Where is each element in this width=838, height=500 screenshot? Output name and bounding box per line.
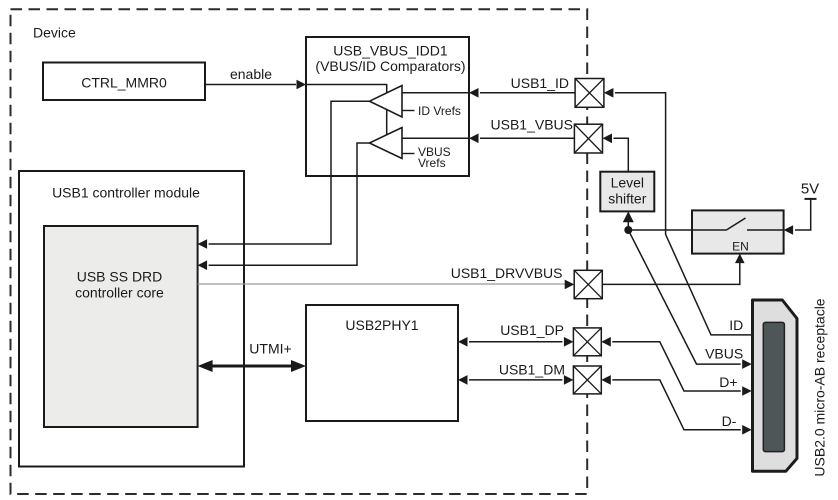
arrow VBUS comp output into core: [198, 260, 208, 270]
arrow D+ pin: [742, 386, 752, 396]
arrow ID comp output into core: [198, 239, 208, 249]
arrow VBUS pin: [742, 359, 752, 369]
block USB SS DRD controller core: [44, 226, 198, 427]
arrow into DM crossing right side: [601, 375, 611, 385]
svg-text:USB1_ID: USB1_ID: [511, 75, 569, 91]
wire ID Vrefs tick: [402, 110, 415, 112]
svg-text:shifter: shifter: [608, 191, 646, 207]
wire USB1_DRVVBUS (thin): [198, 283, 565, 285]
svg-text:ID: ID: [729, 317, 743, 333]
arrow DP into crossing: [564, 337, 574, 347]
wire VBUS comparator output: [209, 143, 370, 265]
wire USB1_VBUS to comparator box: [480, 137, 574, 139]
arrow into VBUS crossing right side: [603, 134, 613, 144]
svg-text:ID Vrefs: ID Vrefs: [418, 104, 461, 118]
arrow D- pin: [742, 425, 752, 435]
crossing USB1_ID: [575, 79, 604, 108]
crossing USB1_DRVVBUS: [574, 270, 602, 298]
arrow into ID crossing right side: [604, 88, 614, 98]
wire USB1_ID to comparator box: [480, 92, 575, 94]
wire USB1_DM between PHY and crossing: [469, 379, 562, 381]
crossing USB1_DP: [573, 328, 601, 356]
arrow UTMI right: [291, 360, 306, 372]
wire ID comparator input: [402, 92, 469, 94]
svg-text:USB1_DRVVBUS: USB1_DRVVBUS: [451, 265, 563, 281]
svg-text:USB2.0 micro-AB receptacle: USB2.0 micro-AB receptacle: [812, 298, 828, 476]
wire enable internal to comparators: [306, 85, 387, 135]
svg-text:D-: D-: [722, 413, 737, 429]
wire VBUS Vrefs tick: [402, 153, 415, 155]
arrow DM into PHY: [458, 375, 468, 385]
supply 5V: [795, 181, 819, 230]
wire VBUS comparator input: [402, 137, 469, 139]
arrow UTMI left: [198, 360, 213, 372]
block USB2PHY1: [306, 305, 458, 421]
block USB1 controller module: [19, 171, 244, 467]
svg-text:USB2PHY1: USB2PHY1: [345, 317, 418, 333]
wire VBUS external from crossing to level shifter: [614, 138, 629, 171]
svg-text:(VBUS/ID Comparators): (VBUS/ID Comparators): [315, 58, 465, 74]
arrow DM into crossing: [564, 375, 574, 385]
svg-text:CTRL_MMR0: CTRL_MMR0: [81, 75, 167, 91]
svg-text:VBUS: VBUS: [705, 346, 743, 362]
arrow USB1_VBUS into comparator box: [469, 134, 479, 144]
block switch EN: [692, 210, 784, 253]
svg-text:USB1 controller module: USB1 controller module: [52, 185, 200, 201]
arrow USB1_ID into comparator box: [469, 88, 479, 98]
arrow into DP crossing right side: [601, 337, 611, 347]
wire DRVVBUS to switch EN input: [602, 263, 740, 284]
svg-text:5V: 5V: [801, 181, 819, 198]
svg-text:Level: Level: [611, 175, 644, 191]
crossing USB1_VBUS: [574, 124, 602, 153]
arrow enable into U1: [297, 80, 307, 90]
wire UTMI+: [209, 365, 295, 368]
block CTRL_MMR0: [43, 63, 205, 101]
arrow 5V into switch: [784, 225, 794, 235]
arrow DP into PHY: [458, 337, 468, 347]
svg-text:enable: enable: [230, 66, 272, 82]
comparator VBUS: [370, 128, 403, 159]
wire VBUS diagonal to receptacle: [628, 230, 740, 364]
wire ID comparator output: [209, 101, 370, 244]
wire ID external from crossing to receptacle: [615, 93, 752, 335]
arrow DRVVBUS into crossing: [565, 280, 575, 290]
svg-text:USB SS DRD: USB SS DRD: [77, 269, 163, 285]
block level shifter: [600, 172, 654, 212]
wire enable: [205, 84, 296, 86]
svg-text:D+: D+: [719, 374, 737, 390]
crossing USB1_DM: [573, 366, 601, 394]
svg-text:Vrefs: Vrefs: [418, 156, 446, 170]
svg-text:USB1_DM: USB1_DM: [499, 361, 565, 377]
wire D- external to receptacle: [612, 380, 740, 430]
device boundary (dashed): [11, 9, 588, 494]
comparator ID: [370, 86, 403, 118]
svg-text:USB1_VBUS: USB1_VBUS: [491, 117, 573, 133]
arrow up into level shifter: [623, 211, 634, 222]
svg-text:EN: EN: [732, 240, 749, 254]
svg-text:USB1_DP: USB1_DP: [500, 322, 564, 338]
connector USB2.0 micro-AB receptacle body: [753, 300, 798, 471]
arrow EN up into switch: [735, 254, 745, 264]
wire USB1_DP between PHY and crossing: [469, 341, 562, 343]
svg-text:USB_VBUS_IDD1: USB_VBUS_IDD1: [333, 42, 448, 58]
svg-text:Device: Device: [33, 25, 76, 41]
block U1 USB_VBUS_IDD1: [306, 37, 469, 176]
connector slot: [763, 322, 784, 451]
node junction: [624, 226, 632, 234]
wire level shifter to junction: [627, 221, 629, 230]
svg-text:UTMI+: UTMI+: [249, 341, 291, 357]
wire D+ external to receptacle: [612, 342, 740, 391]
wire junction to switch: [628, 229, 692, 231]
svg-text:controller core: controller core: [75, 284, 164, 300]
